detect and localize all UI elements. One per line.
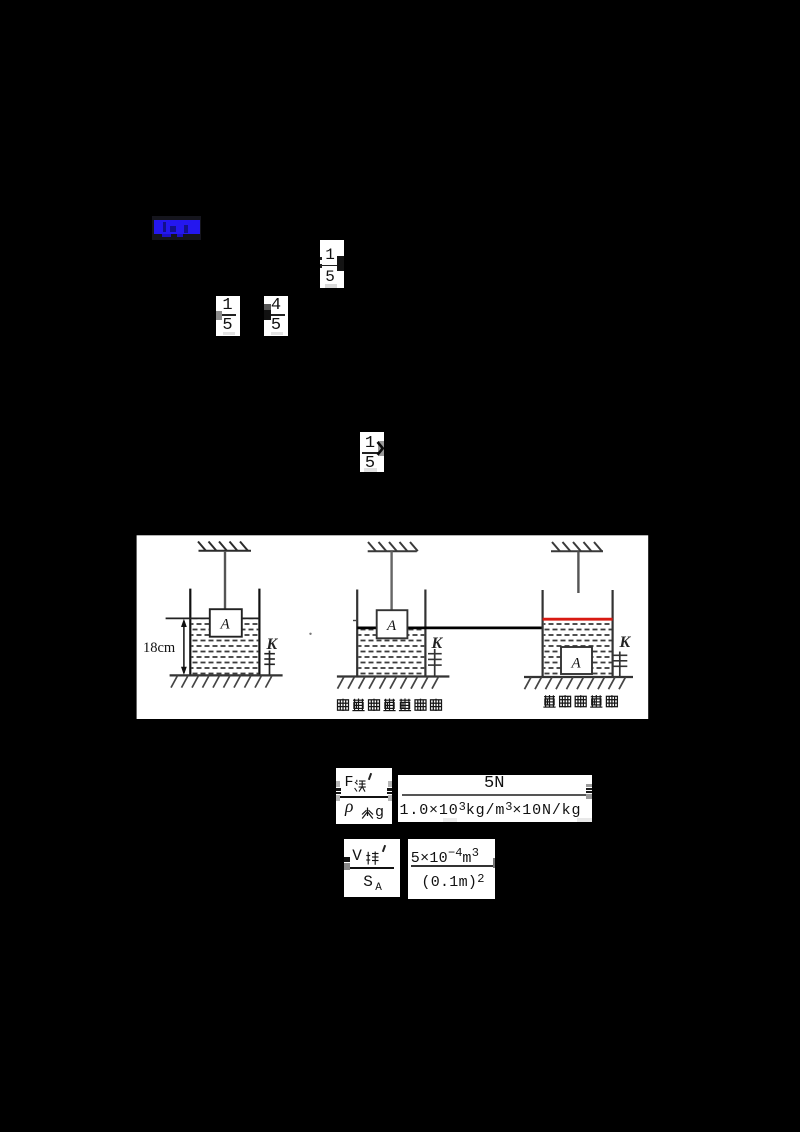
svg-text:K: K — [619, 634, 632, 651]
svg-text:A: A — [220, 617, 231, 633]
svg-text:18cm: 18cm — [143, 640, 176, 656]
svg-text:A: A — [571, 656, 582, 672]
svg-text:A: A — [386, 618, 397, 634]
svg-text:K: K — [431, 635, 444, 652]
svg-text:K: K — [266, 636, 279, 653]
